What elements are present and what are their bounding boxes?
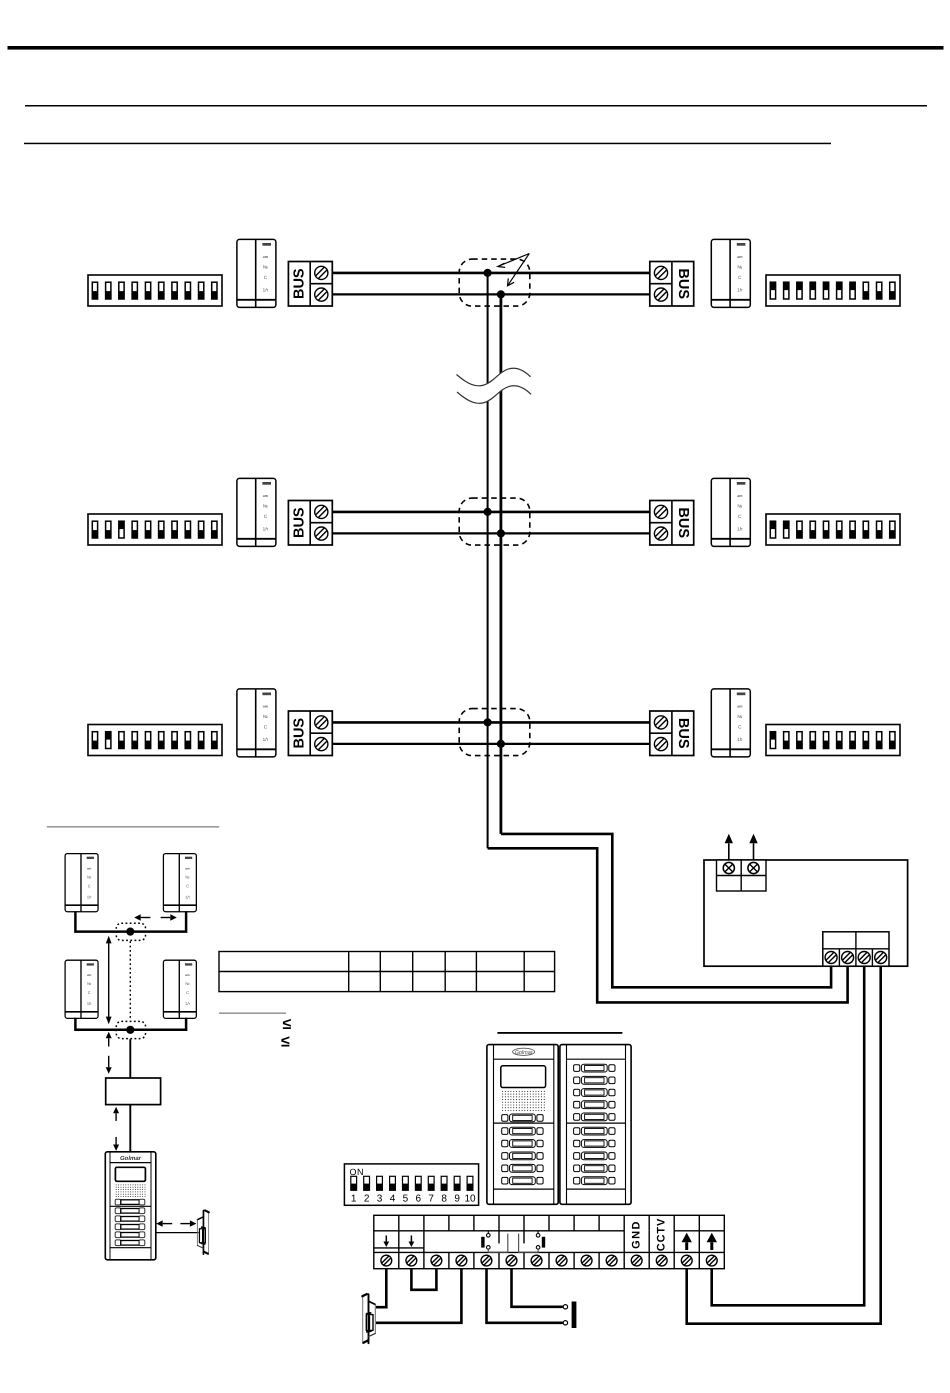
terminal arrow down 1 xyxy=(383,1236,389,1248)
header thick rule xyxy=(8,46,944,50)
terminal screw 2 xyxy=(406,1255,417,1266)
footnote symbols xyxy=(281,1016,292,1051)
power supply PSU box xyxy=(704,860,908,966)
wire J4 to J5 (dotted) xyxy=(129,941,131,1020)
junction node J5 xyxy=(126,1026,134,1034)
wire H5a to junction J5 xyxy=(75,1018,128,1030)
arrow down to panel P2 xyxy=(113,1137,119,1151)
terminal screw 14 xyxy=(706,1255,717,1266)
handset H3R xyxy=(711,689,750,757)
svg-text:1ℎ: 1ℎ xyxy=(185,1001,190,1005)
svg-text:BUS: BUS xyxy=(675,268,691,299)
handset H3L xyxy=(237,689,276,757)
svg-text:am: am xyxy=(87,867,91,870)
svg-text:am: am xyxy=(263,704,268,708)
junction box J1 (dashed) xyxy=(459,259,530,306)
header rule 3 xyxy=(24,143,831,145)
door station terminal strip xyxy=(374,1215,725,1268)
svg-text:BUS: BUS xyxy=(675,507,691,538)
junction box J4 (dotted) xyxy=(116,923,145,940)
wire bus pair row 2 xyxy=(332,512,650,534)
distributor box D1 xyxy=(106,1078,161,1105)
BUS terminal TB1R xyxy=(650,262,694,307)
table footnote rule xyxy=(219,1012,286,1014)
svg-text:BUS: BUS xyxy=(291,507,307,538)
callout arrow to node row1 bus B xyxy=(508,254,530,286)
terminal screw 13 xyxy=(681,1255,692,1266)
branch arrow left xyxy=(134,914,150,920)
wire panel P2 to lock L2 xyxy=(156,1232,199,1234)
svg-text:№: № xyxy=(185,982,189,986)
svg-text:BUS: BUS xyxy=(291,718,307,749)
panel-lock arrow right xyxy=(180,1220,196,1226)
svg-text:BUS: BUS xyxy=(675,718,691,749)
svg-text:am: am xyxy=(263,494,268,498)
wire power supply to door station CCTV+ xyxy=(712,966,865,1305)
terminal screw 4 xyxy=(456,1255,467,1266)
svg-text:am: am xyxy=(185,867,189,870)
junction box J3 (dashed) xyxy=(459,709,530,756)
svg-text:am: am xyxy=(263,255,268,259)
junction node J4 xyxy=(126,928,134,936)
junction node row 3 bus B xyxy=(497,740,505,748)
callout arrow to node row1 bus A xyxy=(498,254,529,268)
svg-text:№: № xyxy=(263,264,268,269)
dip-switch S1L (apartment code) xyxy=(88,275,222,306)
wire bus pair row 3 xyxy=(332,722,650,744)
arrow up to distributor xyxy=(113,1107,119,1121)
handset H4a xyxy=(65,854,98,912)
svg-text:1ℎ: 1ℎ xyxy=(263,527,269,532)
wire terminal 6 to exit button xyxy=(512,1269,563,1307)
BUS terminal TB1L xyxy=(288,262,332,307)
exit button contacts xyxy=(563,1302,576,1329)
junction node row 2 bus B xyxy=(497,529,505,537)
wire H4a to junction J4 xyxy=(75,911,128,931)
wire bus pair row 1 xyxy=(332,273,650,295)
handset H5a xyxy=(65,960,98,1018)
wire riser bus A to power supply xyxy=(488,848,848,1002)
BUS terminal TB3R xyxy=(650,711,694,756)
arrow down to distributor xyxy=(106,1056,112,1074)
arrow up to J5 xyxy=(106,1032,112,1047)
handset H1R xyxy=(711,239,750,307)
wire riser bus B (vertical) xyxy=(499,294,502,834)
PSU screw terminal 3 xyxy=(858,952,870,964)
wire riser bus A (vertical) xyxy=(487,273,489,848)
svg-text:1ℎ: 1ℎ xyxy=(737,288,743,293)
BUS terminal TB2R xyxy=(650,501,694,546)
wire power supply to door station CCTV- xyxy=(687,966,881,1323)
junction node row 2 bus A xyxy=(484,508,492,516)
svg-text:GND: GND xyxy=(631,1220,643,1249)
panel-lock arrow left xyxy=(156,1220,172,1226)
terminal screw 8 xyxy=(556,1255,567,1266)
svg-text:10: 10 xyxy=(464,1194,476,1205)
svg-text:3: 3 xyxy=(377,1194,383,1205)
CCTV label xyxy=(656,1218,668,1252)
terminal screw 5 xyxy=(481,1255,492,1266)
wire distributor to entrance panel P2 xyxy=(129,1105,131,1152)
svg-text:Golmar: Golmar xyxy=(120,1155,142,1162)
junction box J5 (dotted) xyxy=(116,1021,145,1038)
svg-text:1ℎ: 1ℎ xyxy=(87,1001,92,1005)
dip-switch S2L (apartment code) xyxy=(88,514,222,545)
wire terminal 1 to lock L1 xyxy=(376,1269,386,1308)
terminal screw 9 xyxy=(581,1255,592,1266)
terminal arrow down 2 xyxy=(409,1236,415,1248)
cable break symbol xyxy=(457,368,532,403)
dip-switch S3L (apartment code) xyxy=(88,725,222,756)
svg-text:4: 4 xyxy=(390,1194,396,1205)
wire H5b to junction J5 xyxy=(132,1018,186,1030)
svg-text:1ℎ: 1ℎ xyxy=(185,895,190,899)
terminal screw 1 xyxy=(381,1255,392,1266)
dip-switch S1R (apartment code) xyxy=(766,275,900,306)
svg-text:№: № xyxy=(185,875,189,879)
BUS terminal TB3L xyxy=(288,711,332,756)
svg-text:№: № xyxy=(263,714,268,719)
svg-text:6: 6 xyxy=(416,1194,422,1205)
svg-text:1ℎ: 1ℎ xyxy=(737,527,743,532)
handset H5b xyxy=(163,960,196,1018)
svg-text:№: № xyxy=(737,264,742,269)
svg-text:Golmar: Golmar xyxy=(515,1050,534,1056)
header rule 2 xyxy=(25,105,927,107)
svg-text:am: am xyxy=(737,255,742,259)
handset H2L xyxy=(237,478,276,546)
junction node row 1 bus A xyxy=(484,269,492,277)
terminal screw 11 xyxy=(631,1255,642,1266)
terminal arrow up 14 xyxy=(707,1233,717,1250)
svg-text:№: № xyxy=(263,503,268,508)
svg-text:5: 5 xyxy=(403,1194,409,1205)
junction box J2 (dashed) xyxy=(459,498,530,545)
junction node row 3 bus A xyxy=(484,718,492,726)
svg-text:≤: ≤ xyxy=(283,1016,292,1033)
programming dip-switch SW-P with ON label xyxy=(344,1164,478,1205)
svg-text:am: am xyxy=(737,704,742,708)
svg-text:CCTV: CCTV xyxy=(656,1218,668,1252)
svg-text:1: 1 xyxy=(351,1194,357,1205)
door station panel P1 module B xyxy=(560,1045,631,1205)
section rule (branch example) xyxy=(47,826,219,828)
svg-text:№: № xyxy=(87,875,91,879)
terminal screw 6 xyxy=(506,1255,517,1266)
svg-text:ON: ON xyxy=(350,1167,365,1177)
dip-switch S2R (apartment code) xyxy=(766,514,900,545)
wire jumper terminals 2-3 xyxy=(411,1269,436,1290)
entrance panel P2 (secondary) xyxy=(105,1152,156,1260)
wire H4b to junction J4 xyxy=(132,911,186,931)
PSU output terminal strip xyxy=(823,932,889,966)
wire terminal 5 to exit button xyxy=(487,1269,563,1323)
handset H2R xyxy=(711,478,750,546)
handset H4b xyxy=(163,854,196,912)
direction arrow up/down between J4 and J5 xyxy=(106,936,112,1024)
svg-text:8: 8 xyxy=(441,1194,447,1205)
mains arrow N xyxy=(749,834,757,860)
PSU mains terminal grid xyxy=(717,860,767,891)
door release button B2 (internal) xyxy=(519,1231,546,1252)
dip-switch S3R (apartment code) xyxy=(766,725,900,756)
svg-text:BUS: BUS xyxy=(291,268,307,299)
terminal screw 12 xyxy=(656,1255,667,1266)
svg-text:1ℎ: 1ℎ xyxy=(87,895,92,899)
door release button B1 (internal) xyxy=(481,1231,508,1252)
rule above door station xyxy=(497,1032,622,1034)
branch arrow right xyxy=(161,914,177,920)
wire riser bus B to power supply xyxy=(501,834,831,987)
svg-text:№: № xyxy=(87,982,91,986)
PSU screw terminal 2 xyxy=(842,952,854,964)
terminal screw 3 xyxy=(431,1255,442,1266)
svg-text:№: № xyxy=(737,503,742,508)
cable cross-section table xyxy=(219,952,555,992)
PSU screw terminal 4 xyxy=(875,952,887,964)
svg-text:№: № xyxy=(737,714,742,719)
BUS terminal TB2L xyxy=(288,501,332,546)
svg-text:2: 2 xyxy=(364,1194,370,1205)
svg-text:am: am xyxy=(737,494,742,498)
svg-text:9: 9 xyxy=(454,1194,460,1205)
terminal screw 7 xyxy=(531,1255,542,1266)
junction node row 1 bus B xyxy=(497,290,505,298)
svg-text:7: 7 xyxy=(428,1194,434,1205)
mains arrow L xyxy=(725,834,733,860)
electric lock strike L1 xyxy=(362,1293,375,1343)
svg-text:am: am xyxy=(87,973,91,976)
PSU screw terminal 1 xyxy=(825,952,837,964)
svg-text:1ℎ: 1ℎ xyxy=(263,737,269,742)
svg-text:≤: ≤ xyxy=(281,1034,290,1051)
handset H1L xyxy=(237,239,276,307)
electric lock strike L2 xyxy=(197,1210,208,1255)
GND label xyxy=(631,1220,643,1249)
wire terminal 4 to lock L1 xyxy=(376,1269,461,1323)
wire J5 to distributor xyxy=(129,1039,131,1078)
door station panel P1 module A xyxy=(487,1045,558,1205)
svg-text:am: am xyxy=(185,973,189,976)
terminal screw 10 xyxy=(606,1255,617,1266)
terminal arrow up 13 xyxy=(682,1233,692,1250)
svg-text:1ℎ: 1ℎ xyxy=(263,288,269,293)
svg-text:1ℎ: 1ℎ xyxy=(737,737,743,742)
